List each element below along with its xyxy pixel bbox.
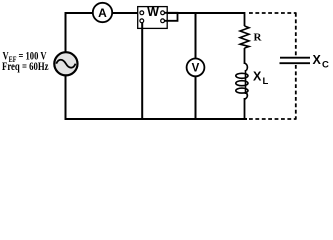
dashed wire right lower (295, 65, 297, 119)
svg-text:L: L (263, 76, 269, 87)
dashed wire right upper (295, 13, 297, 56)
dashed wire bottom (249, 118, 297, 120)
svg-text:C: C (322, 59, 329, 70)
wattmeter W box (138, 7, 168, 29)
wire wattmeter bottom-left branch (141, 23, 143, 120)
svg-text:R: R (254, 31, 263, 43)
wire voltmeter branch upper (195, 12, 197, 59)
AC source V1 (54, 52, 77, 75)
capacitor XC plate top (280, 57, 310, 59)
voltmeter V (187, 59, 205, 77)
dashed wire top (249, 12, 297, 14)
capacitor XC plate bottom (280, 62, 311, 64)
wattmeter terminal bottom-left (140, 19, 144, 23)
resistor R (240, 26, 249, 48)
svg-text:X: X (313, 53, 322, 67)
inductor XL coil (245, 63, 248, 71)
wire top horizontal (66, 12, 245, 14)
ammeter A (93, 3, 112, 22)
wire left vertical lower (65, 76, 67, 121)
wattmeter terminal top-right (161, 11, 165, 15)
wire left vertical upper (65, 12, 67, 52)
svg-text:Freq = 60Hz: Freq = 60Hz (2, 59, 49, 73)
wattmeter jumper wire right (164, 13, 178, 21)
wire R to L (244, 48, 246, 64)
svg-text:W: W (147, 5, 159, 19)
wire voltmeter branch lower (195, 76, 197, 120)
wire RL branch bottom (244, 98, 246, 120)
svg-text:V: V (192, 63, 200, 75)
AC source sine wave (56, 60, 75, 68)
svg-text:A: A (98, 6, 107, 20)
wattmeter terminal top-left (140, 11, 144, 15)
wire bottom horizontal (65, 118, 248, 120)
wire RL branch top (244, 12, 246, 26)
svg-text:X: X (253, 70, 262, 84)
wattmeter terminal bottom-right (161, 19, 165, 23)
